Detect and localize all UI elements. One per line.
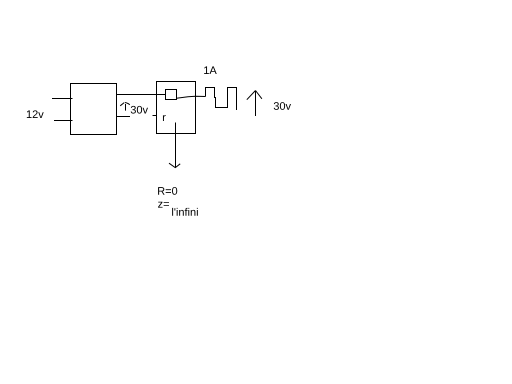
switch S1: [166, 90, 177, 100]
label 30v middle: [131, 106, 148, 114]
label 1A: [204, 66, 217, 74]
square wave symbol: [206, 88, 237, 111]
converter block B2: [157, 82, 196, 134]
label 30v right: [274, 102, 291, 110]
wire input lower: [54, 120, 73, 122]
label r pin: [163, 115, 166, 121]
label z=: [158, 202, 169, 208]
wire S1 to output: [177, 96, 206, 98]
label l'infini: [172, 208, 198, 216]
wire input upper: [52, 98, 73, 100]
wire tick B2 left: [153, 115, 157, 117]
output arrow down: [169, 123, 180, 168]
voltage arrow 30v middle: [120, 103, 130, 111]
source block B1: [71, 84, 117, 135]
voltage arrow 30v right: [247, 91, 262, 117]
label R=0: [158, 187, 177, 195]
wire B1 to S1: [117, 94, 166, 96]
wire stub B1 right: [117, 116, 131, 118]
label 12v: [27, 110, 44, 118]
